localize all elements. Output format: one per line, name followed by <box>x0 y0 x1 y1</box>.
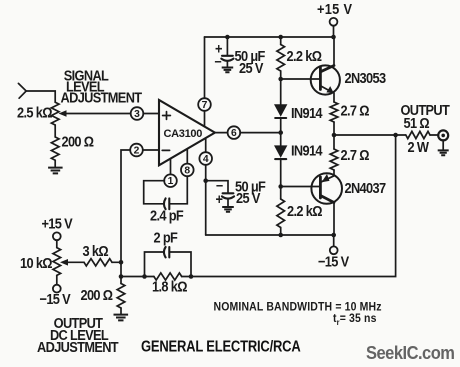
svg-text:2.2 kΩ: 2.2 kΩ <box>287 202 322 219</box>
svg-text:+15 V: +15 V <box>317 0 353 17</box>
-15V terminal DC adj <box>56 275 58 284</box>
svg-text:200 Ω: 200 Ω <box>62 133 94 150</box>
svg-text:2N4037: 2N4037 <box>345 179 387 196</box>
svg-text:+15 V: +15 V <box>42 215 74 232</box>
wire base node to diode D1 <box>280 79 282 104</box>
wire pin 8 to op-amp <box>186 149 188 164</box>
svg-text:2 W: 2 W <box>408 138 430 155</box>
-15V supply rail <box>206 234 334 236</box>
wire 2.4pF loop left <box>144 181 165 204</box>
junction rail / 50uF cap <box>225 35 230 40</box>
svg-text:tr= 35 ns: tr= 35 ns <box>333 312 377 326</box>
potentiometer 2.5 kOhm <box>51 102 59 125</box>
junction diode / base 2N4037 <box>278 184 283 189</box>
junction 2pF left <box>142 274 147 279</box>
svg-text:2: 2 <box>134 145 140 156</box>
wire feedback from output <box>191 135 396 277</box>
wire wiper to pin 3 <box>64 113 131 115</box>
svg-text:7: 7 <box>202 100 208 111</box>
junction emitters node <box>332 133 337 138</box>
pin 6 <box>228 126 241 139</box>
junction rail / collector 2N4037 <box>331 233 336 238</box>
wire pin 7 to +15V rail <box>204 37 206 98</box>
resistor 1.8 kOhm feedback <box>121 276 154 278</box>
potentiometer 10 kOhm <box>53 248 61 276</box>
junction rail / 2.2k lower <box>278 233 283 238</box>
pin 7 <box>198 98 211 111</box>
pin 8 <box>181 164 194 177</box>
wire pin 7 to op-amp top <box>204 111 206 127</box>
svg-text:10 kΩ: 10 kΩ <box>20 254 52 271</box>
junction pin4 bypass node <box>203 178 208 183</box>
op-amp U1 CA3100 <box>159 100 215 165</box>
resistor 200 Ohm input <box>51 137 59 160</box>
svg-text:51 Ω: 51 Ω <box>404 114 430 131</box>
svg-text:200 Ω: 200 Ω <box>81 286 113 303</box>
wire emitters to output <box>334 134 396 136</box>
svg-text:–: – <box>215 52 222 69</box>
svg-text:SeekIC.com: SeekIC.com <box>366 342 454 363</box>
resistor 2.2 kOhm upper <box>280 37 282 45</box>
svg-text:3: 3 <box>134 109 140 120</box>
svg-text:8: 8 <box>184 165 190 176</box>
svg-text:IN914: IN914 <box>291 104 323 121</box>
resistor 2.7 Ohm lower <box>333 135 335 149</box>
svg-text:+: + <box>216 190 223 207</box>
svg-text:ADJUSTMENT: ADJUSTMENT <box>61 89 143 106</box>
transistor Q1 2N3053 <box>311 37 340 102</box>
svg-text:2.4 pF: 2.4 pF <box>150 207 183 224</box>
svg-text:2N3053: 2N3053 <box>345 69 387 86</box>
svg-text:25 V: 25 V <box>239 59 264 76</box>
wire input to 2.5k pot <box>26 91 55 102</box>
diode D2 1N914 <box>274 145 287 158</box>
ground 50uF bottom <box>222 207 234 212</box>
input terminal <box>18 83 26 98</box>
pin 3 <box>131 107 144 120</box>
wire pin 3 to op-amp <box>143 113 159 115</box>
wire pin 1 to op-amp <box>170 159 172 175</box>
wire pin 2 to op-amp <box>143 149 159 151</box>
junction rail / 2.2k <box>278 35 283 40</box>
junction diodes midpoint <box>278 130 283 135</box>
svg-text:6: 6 <box>231 128 237 139</box>
svg-text:CA3100: CA3100 <box>164 128 203 140</box>
resistor 3 kOhm <box>66 261 85 263</box>
resistor 51 Ohm output <box>396 134 406 136</box>
pin 4 <box>199 152 212 165</box>
resistor 2.2 kOhm lower <box>280 187 282 200</box>
-15V terminal <box>333 235 335 246</box>
wire op-amp output to pin 6 <box>215 132 228 134</box>
svg-text:2.7 Ω: 2.7 Ω <box>341 102 370 119</box>
svg-text:ADJUSTMENT: ADJUSTMENT <box>37 338 119 355</box>
output terminal <box>438 130 448 140</box>
wire pot to 200 ohm resistor <box>54 125 56 137</box>
+15V terminal <box>330 18 338 26</box>
wire base 2N3053 <box>281 78 321 80</box>
ground input <box>48 168 63 174</box>
svg-text:3 kΩ: 3 kΩ <box>83 242 109 259</box>
resistor 200 Ohm dc <box>120 277 122 284</box>
wire diode midpoint to D2 <box>280 133 282 146</box>
diode D1 1N914 <box>274 104 287 117</box>
wire pin 4 to -15V rail <box>205 165 207 235</box>
svg-text:IN914: IN914 <box>291 142 323 159</box>
pin 2 <box>130 144 143 157</box>
wire base 2N4037 <box>281 186 321 188</box>
svg-text:25 V: 25 V <box>236 189 261 206</box>
svg-text:4: 4 <box>203 154 209 165</box>
svg-text:GENERAL ELECTRIC/RCA: GENERAL ELECTRIC/RCA <box>141 338 301 355</box>
capacitor 50uF top <box>226 37 228 55</box>
wire 2.4pF loop right <box>169 176 187 204</box>
junction 2.2k / base 2N3053 <box>278 77 283 82</box>
wire op-amp to pin 4 <box>205 139 207 153</box>
svg-text:−15 V: −15 V <box>40 290 72 307</box>
wiper arrow 10k pot <box>60 259 68 266</box>
wiper arrow 2.5k pot <box>59 110 67 117</box>
transistor Q2 2N4037 <box>311 170 342 235</box>
pin 1 <box>164 174 177 187</box>
wire pin 2 to inverting node <box>121 150 130 277</box>
junction output node <box>393 133 398 138</box>
wire 200 ohm to ground <box>54 160 56 167</box>
svg-text:2.5 kΩ: 2.5 kΩ <box>17 104 52 121</box>
resistor 2.7 Ohm upper <box>330 102 338 122</box>
junction 2pF right <box>189 274 194 279</box>
svg-text:1.8 kΩ: 1.8 kΩ <box>152 278 187 295</box>
ground output terminal <box>438 150 449 155</box>
ground 200 Ohm dc <box>114 315 129 321</box>
junction rail / collector <box>331 35 336 40</box>
svg-text:2 pF: 2 pF <box>154 229 178 246</box>
capacitor C 2.4 pF <box>164 198 166 209</box>
wire pin 6 to diode node <box>240 132 281 134</box>
svg-text:−15 V: −15 V <box>318 253 350 270</box>
ground 50uF top <box>222 68 234 73</box>
svg-text:1: 1 <box>168 176 174 187</box>
svg-text:2.7 Ω: 2.7 Ω <box>341 146 370 163</box>
junction inverting node <box>119 274 124 279</box>
capacitor C 2 pF loop <box>145 252 164 277</box>
junction 3k / inverting line <box>119 260 124 265</box>
capacitor 50uF bottom <box>206 181 228 193</box>
+15V supply rail <box>205 36 334 38</box>
svg-text:2.2 kΩ: 2.2 kΩ <box>287 47 322 64</box>
